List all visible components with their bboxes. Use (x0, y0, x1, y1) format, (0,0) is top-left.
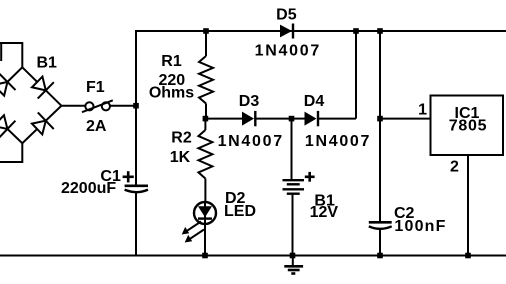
capacitor C2 (379, 31, 381, 221)
wire D4 cathode riser (319, 118, 356, 120)
svg-text:F1: F1 (86, 79, 105, 96)
svg-text:B1: B1 (37, 54, 58, 71)
svg-text:D5: D5 (276, 7, 297, 24)
LED D2 (204, 202, 206, 256)
node IC1 input junction (377, 116, 383, 122)
node C2 bottom junction (377, 253, 383, 259)
wire AC input stub at left edge (0, 43, 2, 61)
diode D4 (292, 118, 305, 120)
svg-text:D4: D4 (304, 93, 325, 110)
node R1/R2/D3 junction (203, 116, 209, 122)
wire bottom ground rail (0, 255, 506, 257)
op-amp/regulator IC1 7805 (431, 96, 504, 156)
svg-text:Ohms: Ohms (149, 85, 194, 102)
node D4 riser top (353, 28, 359, 34)
diode D5 (280, 25, 292, 38)
svg-text:2200uF: 2200uF (61, 180, 116, 197)
wire left rail vertical (135, 30, 137, 185)
wire R2 node to D3 (206, 118, 242, 120)
bridge diode lower-right (32, 121, 46, 135)
resistor R2 (204, 119, 206, 130)
node D3/D4/battery junction (289, 116, 295, 122)
svg-text:12V: 12V (310, 204, 339, 221)
wire bridge output to fuse (61, 105, 85, 107)
svg-text:LED: LED (224, 203, 256, 220)
C1 polarity plus (123, 176, 134, 179)
svg-text:R1: R1 (161, 53, 182, 70)
fuse F1 (85, 102, 93, 110)
svg-text:7805: 7805 (449, 118, 487, 135)
svg-text:1: 1 (418, 102, 427, 119)
bridge diode upper-right (32, 77, 46, 91)
battery B1 (291, 119, 293, 180)
wire fuse to rail (110, 105, 136, 107)
resistor R1 (205, 31, 207, 56)
LED arrow 1 (186, 222, 202, 232)
node LED bottom junction (202, 253, 208, 259)
wire AC input top (0, 43, 22, 67)
wire AC input bottom (0, 143, 22, 162)
node R1 top junction (203, 28, 209, 34)
svg-text:2A: 2A (86, 118, 107, 135)
svg-text:1K: 1K (170, 149, 191, 166)
LED arrow 2 (189, 230, 205, 240)
svg-text:1N4007: 1N4007 (255, 42, 321, 59)
wire D3 to D4 (256, 118, 292, 120)
battery polarity plus (305, 176, 315, 179)
svg-text:D3: D3 (239, 93, 260, 110)
svg-text:R2: R2 (171, 129, 192, 146)
node pin2/ground junction (465, 253, 471, 259)
node C2 top junction (377, 28, 383, 34)
svg-text:100nF: 100nF (394, 218, 446, 235)
node fuse/rail junction (133, 103, 139, 109)
bridge diode upper-left (0, 82, 7, 96)
wire rail to IC1 pin 1 (380, 118, 430, 120)
svg-text:1N4007: 1N4007 (305, 133, 371, 150)
node battery bottom junction (290, 253, 296, 259)
bridge diode lower-left (0, 115, 7, 129)
ground (292, 256, 294, 267)
wire IC1 pin 2 down (467, 155, 469, 256)
capacitor C1 (125, 185, 148, 188)
wire top positive rail (135, 30, 506, 32)
bridge rectifier B1 (0, 67, 61, 143)
svg-text:2: 2 (450, 159, 459, 176)
diode D3 (242, 112, 254, 126)
svg-text:1N4007: 1N4007 (218, 133, 284, 150)
